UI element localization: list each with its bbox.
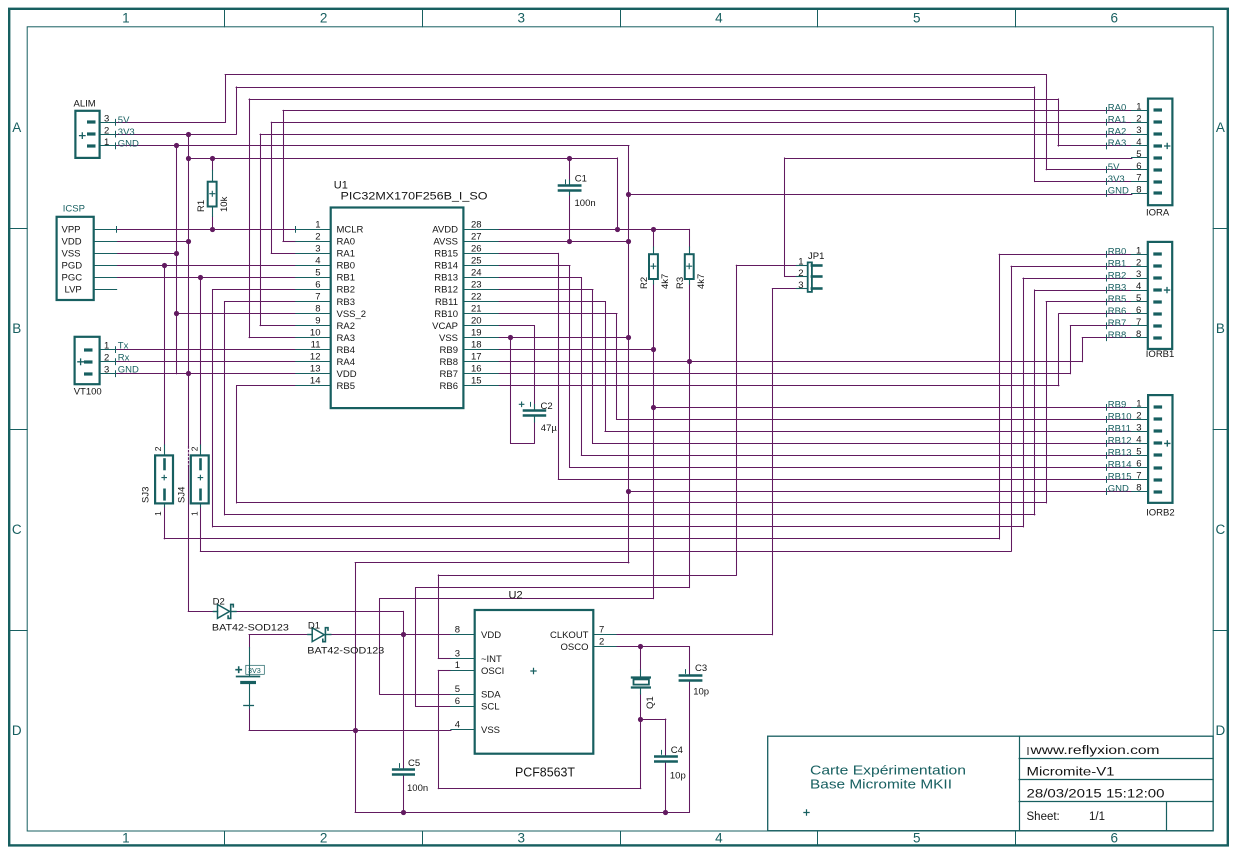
svg-text:D: D	[12, 723, 22, 738]
junction GND-left VSS	[174, 251, 179, 256]
title origin cross	[803, 809, 809, 815]
junction GND AVSS row	[626, 239, 631, 244]
pin stub U1 26	[463, 253, 498, 255]
svg-text:20: 20	[471, 316, 482, 327]
pin stub U2 2	[593, 646, 616, 648]
diode D2 BAT42	[213, 604, 236, 618]
svg-text:D1: D1	[308, 620, 320, 631]
capacitor C5	[393, 763, 414, 774]
svg-text:5: 5	[315, 268, 320, 279]
wire CLKOUT column	[772, 289, 774, 635]
wire RB11 column	[605, 302, 607, 432]
svg-text:RB9: RB9	[1108, 400, 1126, 411]
capacitor C3	[680, 669, 701, 680]
wire RB1 to IORB1 pin2	[1011, 266, 1132, 268]
wire 3V3 to D2 anode	[188, 611, 213, 613]
junction OSCO crystal	[638, 644, 643, 649]
wire SJ3 bottom column	[164, 507, 166, 539]
junction 3V3 column tap	[186, 132, 191, 137]
battery label 3V3	[246, 665, 264, 674]
net label GND IORB2	[1106, 488, 1108, 495]
svg-text:D: D	[1216, 723, 1226, 738]
svg-text:6: 6	[315, 280, 320, 291]
svg-text:6: 6	[1111, 831, 1119, 846]
wire Rx VT100 to U1 pin12	[116, 361, 296, 363]
wire SJ3 top column	[164, 265, 166, 445]
svg-text:www.reflyxion.com: www.reflyxion.com	[1029, 745, 1159, 757]
connector IORB2	[1132, 395, 1173, 503]
wire GND C4 bottom lead	[665, 762, 667, 812]
wire 3V3 riser	[236, 87, 238, 134]
svg-text:R2: R2	[639, 277, 650, 289]
pin tick MCLR	[295, 226, 297, 233]
jumper JP1	[796, 262, 821, 292]
wire IORA pin5 row	[785, 158, 1132, 160]
wire RB12 from U1	[498, 289, 593, 291]
svg-text:RA1: RA1	[337, 249, 355, 260]
wire OSCI riser to crystal	[640, 719, 642, 789]
svg-text:2: 2	[798, 268, 803, 279]
wire RB5 riser to IORB1 pin5	[1046, 302, 1048, 503]
wire SJ4 top column	[200, 278, 202, 446]
wire RA0 riser	[283, 110, 285, 241]
svg-text:R1: R1	[196, 200, 207, 212]
wire C1 bottom lead	[569, 191, 571, 241]
pin stub U2 4	[451, 729, 475, 731]
wire RB3 column	[224, 302, 226, 515]
svg-text:5: 5	[1136, 149, 1141, 160]
svg-text:3: 3	[518, 11, 526, 26]
wire GND jog left	[355, 562, 629, 564]
junction C1 bottom	[567, 239, 572, 244]
net label GND	[115, 142, 117, 149]
net label Rx	[115, 358, 117, 365]
crystal Q1	[632, 670, 650, 694]
wire RB8 U1 pin17 row	[498, 361, 1082, 363]
wire Tx VT100 to U1 pin11	[116, 349, 296, 351]
wire 3V3 from ALIM pin2	[116, 134, 236, 136]
wire R3 top lead	[689, 229, 691, 247]
wire RB0 to IORB1 pin1	[999, 254, 1132, 256]
wire RB15 column	[558, 253, 560, 479]
wire RB6 U1 pin15 row	[498, 385, 1059, 387]
svg-text:VSS: VSS	[62, 249, 81, 260]
wire OSCI from U2 pin1	[438, 670, 451, 672]
svg-text:RB12: RB12	[1108, 436, 1132, 447]
wire GND left column	[176, 146, 178, 374]
svg-text:3V3: 3V3	[248, 666, 261, 675]
resistor R1	[208, 170, 217, 216]
svg-text:1/1: 1/1	[1089, 811, 1105, 823]
wire VCAP U1 pin20	[498, 325, 534, 327]
svg-text:VCAP: VCAP	[432, 321, 458, 332]
net label RB3 IORB1	[1106, 287, 1108, 294]
wire JP1 pin2 row	[785, 276, 797, 278]
wire U1 VSS_2 row	[177, 313, 296, 315]
junction GND IORA branch	[626, 192, 631, 197]
junction GND C5	[401, 810, 406, 815]
svg-text:9: 9	[315, 316, 320, 327]
svg-text:12: 12	[310, 352, 321, 363]
capacitor C2	[519, 402, 545, 423]
svg-text:RB1: RB1	[337, 273, 355, 284]
svg-text:1: 1	[153, 511, 163, 516]
wire RB7 to IORB1 pin7	[1070, 325, 1131, 327]
wire RB7 U1 pin16 row	[498, 373, 1070, 375]
junction SDA IORB2 row	[651, 405, 656, 410]
svg-text:RB8: RB8	[440, 357, 458, 368]
svg-text:1: 1	[122, 831, 130, 846]
svg-text:RB2: RB2	[1108, 270, 1126, 281]
junction GND VSS row	[626, 335, 631, 340]
svg-text:C: C	[1216, 522, 1226, 537]
junction R1 top	[210, 156, 215, 161]
wire R1 top lead	[212, 158, 214, 170]
net label RB13 IORB2	[1106, 452, 1108, 459]
svg-text:6: 6	[1136, 305, 1141, 316]
wire C1 top lead	[569, 158, 571, 180]
svg-text:GND: GND	[118, 139, 139, 150]
junction GND column left	[174, 143, 179, 148]
wire SDA to IORB2 pin1	[653, 407, 1131, 409]
svg-text:C5: C5	[408, 758, 420, 769]
svg-text:4: 4	[1136, 281, 1141, 292]
svg-text:RB7: RB7	[440, 369, 458, 380]
svg-text:RB0: RB0	[337, 261, 355, 272]
net label RB2 IORB1	[1106, 275, 1108, 282]
svg-text:14: 14	[310, 376, 321, 387]
wire 3V3 drop to AVDD row	[617, 158, 619, 229]
wire RA3 riser	[249, 99, 251, 338]
title block sheet cell divider	[1166, 802, 1168, 831]
junction PGC SJ4 branch	[198, 275, 203, 280]
pin tick ICSP VPP	[116, 226, 118, 233]
junction GND IORB2 branch	[626, 489, 631, 494]
wire SCL row to U2	[416, 587, 690, 589]
net label RB12 IORB2	[1106, 440, 1108, 447]
svg-text:RB6: RB6	[1108, 306, 1126, 317]
wire RB1 riser to IORB1 pin2	[1011, 266, 1013, 551]
junction 3V3 ICSP VDD	[186, 239, 191, 244]
wire GND battery lead	[249, 708, 251, 730]
junction AVDD drop	[615, 227, 620, 232]
svg-text:2: 2	[1136, 113, 1141, 124]
svg-text:B: B	[12, 321, 21, 336]
pin stub U2 1	[451, 670, 475, 672]
wire 3V3 left column upper	[188, 134, 190, 447]
wire 5V top bus	[225, 74, 1046, 76]
wire RA3 drop to IORA pin4	[1058, 99, 1060, 146]
pin stub U1 3	[296, 253, 331, 255]
wire RB2 bottom row	[213, 526, 1024, 528]
wire RB13 from U1	[498, 277, 581, 279]
pin stub U2 5	[451, 694, 475, 696]
wire RB14 column	[569, 265, 571, 467]
pin stub U1 9	[296, 325, 331, 327]
wire MCLR ICSP VPP to U1 pin1	[117, 229, 296, 231]
wire GND to IORA pin8	[629, 194, 1132, 196]
svg-text:VDD: VDD	[337, 369, 357, 380]
wire PGC ICSP to U1 pin5	[117, 277, 296, 279]
svg-text:D2: D2	[213, 596, 225, 607]
net label 5V IORA	[1106, 166, 1108, 173]
wire 3V3 to IORA pin7	[1035, 181, 1132, 183]
pin stub U1 15	[463, 385, 498, 387]
wire RB11 from U1	[498, 301, 605, 303]
wire 5V to IORA pin6	[1046, 169, 1132, 171]
wire R2 top lead	[653, 229, 655, 247]
junction AVDD R2	[651, 227, 656, 232]
svg-text:10p: 10p	[693, 686, 709, 697]
svg-text:Micromite-V1: Micromite-V1	[1027, 766, 1115, 778]
svg-text:RB15: RB15	[1108, 472, 1132, 483]
svg-text:Carte Expérimentation: Carte Expérimentation	[810, 764, 966, 778]
pin stub U2 8	[451, 634, 475, 636]
wire R2 column	[653, 284, 655, 599]
svg-text:RA2: RA2	[337, 321, 355, 332]
capacitor C1	[559, 179, 580, 195]
wire VDD RTC column	[403, 611, 405, 768]
svg-text:2: 2	[104, 126, 109, 137]
wire C2 bottom lead	[534, 417, 536, 443]
svg-text:3: 3	[455, 648, 460, 659]
capacitor C4	[655, 750, 676, 762]
svg-text:1: 1	[798, 257, 803, 268]
svg-text:Q1: Q1	[645, 696, 656, 709]
svg-text:OSCI: OSCI	[481, 666, 504, 677]
wire OSCI bottom row	[438, 788, 640, 790]
net label RA1 IORA	[1106, 119, 1108, 126]
svg-text:VDD: VDD	[62, 237, 82, 248]
wire RB15 to IORB2	[558, 479, 1131, 481]
net label GND VT100	[115, 370, 117, 377]
svg-text:5V: 5V	[118, 115, 130, 126]
wire R1 bottom lead	[212, 217, 214, 230]
junction GND U2 VSS row	[353, 728, 358, 733]
svg-text:RB11: RB11	[1108, 424, 1131, 435]
battery 3V3	[235, 648, 259, 709]
svg-text:2: 2	[599, 636, 604, 647]
junction 3V3 row158	[186, 156, 191, 161]
svg-text:1: 1	[1136, 399, 1141, 410]
svg-text:RB7: RB7	[1108, 318, 1126, 329]
svg-text:SDA: SDA	[481, 689, 501, 700]
net label RB8 IORB1	[1106, 334, 1108, 341]
net label 5V	[115, 119, 117, 126]
wire JP1 pin1 column	[736, 265, 738, 575]
connector VT100	[75, 337, 116, 384]
svg-text:6: 6	[455, 696, 460, 707]
pin stub U2 7	[593, 634, 616, 636]
svg-text:6: 6	[1136, 161, 1141, 172]
svg-text:RB2: RB2	[337, 285, 355, 296]
svg-text:RB5: RB5	[337, 381, 355, 392]
svg-text:27: 27	[471, 231, 482, 242]
pin stub U1 6	[296, 289, 331, 291]
svg-text:ALIM: ALIM	[74, 98, 96, 109]
wire GND main column	[628, 146, 630, 563]
wire RB2 riser to IORB1 pin3	[1023, 278, 1025, 527]
svg-text:3: 3	[798, 280, 803, 291]
svg-text:PIC32MX170F256B_I_SO: PIC32MX170F256B_I_SO	[341, 190, 488, 202]
U2 origin cross	[530, 668, 536, 674]
svg-text:RB11: RB11	[435, 297, 458, 308]
wire GND C5 bottom lead	[403, 775, 405, 812]
svg-text:5: 5	[1136, 293, 1141, 304]
wire RB3 bottom row	[225, 514, 1035, 516]
svg-text:GND: GND	[118, 365, 139, 376]
wire RA1 top row to IORA pin2	[271, 122, 1132, 124]
wire RB5 bottom row	[237, 502, 1047, 504]
wire RB2 U1 pin6 segment	[213, 289, 296, 291]
svg-text:2: 2	[1136, 257, 1141, 268]
svg-text:IORB1: IORB1	[1146, 349, 1175, 360]
wire RB13 column	[581, 278, 583, 456]
svg-text:U2: U2	[509, 590, 523, 602]
wire Q1 bottom lead	[640, 694, 642, 719]
svg-text:3: 3	[518, 831, 526, 846]
wire RA2 riser	[260, 134, 262, 325]
wire battery to D1	[249, 634, 308, 636]
connector ICSP	[57, 217, 117, 300]
svg-text:PGC: PGC	[62, 273, 83, 284]
wire GND lower column	[355, 563, 357, 813]
net label RB1 IORB1	[1106, 263, 1108, 270]
svg-text:10p: 10p	[670, 770, 686, 781]
svg-text:VDD: VDD	[481, 630, 501, 641]
wire VCAP down to C2	[534, 326, 536, 410]
wire 3V3 left column lower	[188, 466, 190, 611]
svg-text:16: 16	[471, 364, 482, 375]
svg-text:19: 19	[471, 328, 482, 339]
wire GND from ALIM pin1	[116, 145, 629, 147]
wire SDA column	[379, 599, 381, 694]
junction crystal bottom	[638, 717, 643, 722]
wire RB3 riser to IORB1 pin4	[1034, 290, 1036, 515]
svg-text:RB4: RB4	[337, 345, 355, 356]
wire 5V from ALIM pin3	[116, 122, 225, 124]
pin stub U1 7	[296, 301, 331, 303]
wire OSCO row	[616, 646, 689, 648]
wire GND to C3 bottom	[689, 681, 691, 812]
wire RB2 column	[212, 290, 214, 527]
pin stub U1 20	[463, 325, 498, 327]
wire D2 output row	[236, 611, 403, 613]
svg-text:RB6: RB6	[440, 381, 458, 392]
svg-text:MCLR: MCLR	[337, 225, 364, 236]
svg-text:OSCO: OSCO	[561, 642, 589, 653]
pin stub U1 16	[463, 373, 498, 375]
wire ICSP VDD	[117, 241, 189, 243]
net label RA2 IORA	[1106, 131, 1108, 138]
svg-text:3V3: 3V3	[118, 127, 135, 138]
pin stub U1 11	[296, 349, 331, 351]
svg-text:2: 2	[320, 11, 328, 26]
pin stub U1 19	[463, 337, 498, 339]
svg-text:RB5: RB5	[1108, 294, 1126, 305]
svg-text:GND: GND	[1108, 186, 1129, 197]
wire JP1 pin3 row	[772, 288, 796, 290]
wire 5V drop to IORA pin6	[1046, 75, 1048, 170]
junction GND C4	[663, 810, 668, 815]
svg-text:RB3: RB3	[1108, 282, 1126, 293]
svg-text:1: 1	[104, 137, 109, 148]
junction VDD RTC D1	[401, 632, 406, 637]
svg-text:4: 4	[715, 831, 723, 846]
svg-text:15: 15	[471, 376, 482, 387]
wire RA2 top row to IORA pin3	[260, 134, 1132, 136]
wire JP1 pin1 row	[736, 265, 796, 267]
wire AVSS row	[498, 241, 629, 243]
svg-text:VSS: VSS	[439, 333, 458, 344]
junction C2 loop	[508, 335, 513, 340]
wire SCL column	[415, 588, 417, 706]
pin stub U1 18	[463, 349, 498, 351]
svg-text:7: 7	[1136, 173, 1141, 184]
wire C2 loop down	[510, 338, 512, 444]
svg-text:A: A	[12, 120, 21, 135]
pin stub U1 22	[463, 301, 498, 303]
net label 3V3	[115, 131, 117, 138]
svg-text:Rx: Rx	[118, 353, 130, 364]
wire RA3 U1 pin10 segment	[249, 337, 296, 339]
svg-text:25: 25	[471, 255, 482, 266]
wire RB0 riser to IORB1 pin1	[999, 254, 1001, 539]
wire RB6 to IORB1 pin6	[1059, 313, 1132, 315]
wire SJ4 bottom column	[200, 507, 202, 551]
net label 3V3 IORA	[1106, 178, 1108, 185]
pin stub U1 28	[463, 229, 498, 231]
wire RB14 from U1	[498, 265, 570, 267]
svg-text:5V: 5V	[1108, 162, 1120, 173]
net label Tx	[115, 346, 117, 353]
svg-text:2: 2	[104, 352, 109, 363]
wire RB3 U1 pin7 segment	[225, 301, 296, 303]
svg-text:RA4: RA4	[337, 357, 355, 368]
title block divider	[1019, 736, 1021, 831]
ic U2 outline	[475, 610, 594, 754]
wire C4 top lead	[665, 719, 667, 756]
wire RB5 U1 pin14 segment	[237, 385, 296, 387]
svg-text:7: 7	[1136, 471, 1141, 482]
svg-text:Base Micromite MKII: Base Micromite MKII	[810, 778, 952, 792]
pin stub U2 6	[451, 706, 475, 708]
net label RB6 IORB1	[1106, 311, 1108, 318]
junction GND-left VSS_2	[174, 311, 179, 316]
wire RB12 to IORB2	[593, 443, 1132, 445]
pin stub U1 17	[463, 361, 498, 363]
net label RB15 IORB2	[1106, 476, 1108, 483]
svg-text:IORA: IORA	[1146, 207, 1170, 218]
wire 3V3 row to C1	[188, 158, 617, 160]
wire RB11 to IORB2	[605, 431, 1132, 433]
svg-text:C2: C2	[541, 401, 553, 412]
junction RB8 R3 column	[687, 359, 692, 364]
svg-text:CLKOUT: CLKOUT	[550, 630, 589, 641]
svg-text:7: 7	[599, 625, 604, 636]
wire SDA to U2 pin5	[380, 694, 451, 696]
svg-text:6: 6	[1111, 11, 1119, 26]
svg-text:VPP: VPP	[62, 225, 81, 236]
svg-text:SJ4: SJ4	[177, 487, 188, 503]
net label RB9 IORB2	[1106, 404, 1108, 411]
svg-text:3: 3	[104, 364, 109, 375]
svg-text:1: 1	[455, 660, 460, 671]
svg-text:RA1: RA1	[1108, 114, 1126, 125]
svg-text:10: 10	[310, 328, 321, 339]
svg-text:RB3: RB3	[337, 297, 355, 308]
pin stub U1 21	[463, 313, 498, 315]
